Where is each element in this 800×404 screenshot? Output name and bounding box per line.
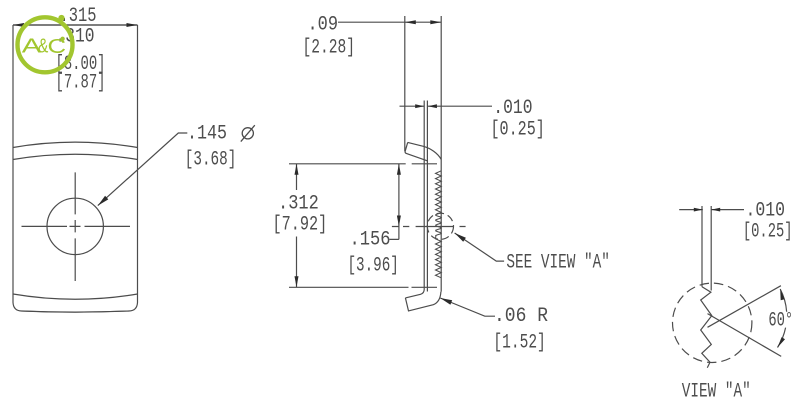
arrowheads .010 middle bbox=[415, 104, 424, 108]
bottom lanced tab bbox=[405, 292, 441, 311]
diameter symbol bbox=[242, 128, 253, 139]
hole circle bbox=[47, 198, 103, 254]
logo accent dot top bbox=[58, 15, 64, 21]
hole centerline horizontal bbox=[22, 225, 131, 227]
svg-text:[0.25]: [0.25] bbox=[743, 221, 793, 244]
view A sheet lines bbox=[702, 206, 711, 291]
dim .312 dimension line bbox=[296, 164, 298, 287]
view A serration teeth bbox=[701, 287, 712, 368]
svg-text:SEE VIEW "A": SEE VIEW "A" bbox=[506, 252, 610, 275]
svg-text:.010: .010 bbox=[746, 200, 786, 223]
dim .09 dimension line bbox=[338, 21, 441, 23]
hole centerline vertical bbox=[74, 172, 76, 281]
arrowheads .312 bbox=[295, 164, 299, 175]
left view bottom bend line bbox=[13, 294, 138, 299]
centerline through detail region bbox=[392, 226, 466, 228]
svg-text:[7.87]: [7.87] bbox=[56, 72, 106, 95]
arrowhead .06R leader bbox=[440, 298, 452, 305]
svg-text:.312: .312 bbox=[278, 193, 319, 216]
svg-text:.06 R: .06 R bbox=[494, 305, 548, 328]
dim .010 view A dimension line bbox=[679, 209, 744, 211]
top lanced tab bbox=[405, 142, 441, 160]
logo ring bbox=[18, 17, 73, 72]
svg-text:[1.52]: [1.52] bbox=[493, 332, 545, 355]
leader line for hole diameter bbox=[98, 133, 188, 206]
svg-text:.010: .010 bbox=[493, 97, 532, 120]
svg-text:C: C bbox=[48, 36, 67, 58]
svg-text:[3.68]: [3.68] bbox=[185, 149, 237, 172]
60 degree angle line lower bbox=[708, 314, 782, 357]
logo accent dot inner bbox=[60, 37, 64, 41]
arrowheads .156 bbox=[397, 164, 401, 175]
dim .312 bottom extension line bbox=[289, 286, 437, 288]
svg-text:VIEW "A": VIEW "A" bbox=[682, 380, 751, 403]
svg-text:.09: .09 bbox=[308, 14, 339, 37]
serration teeth middle view bbox=[436, 171, 442, 278]
dim .156 dimension line bbox=[390, 164, 399, 240]
svg-text:[2.28]: [2.28] bbox=[303, 37, 356, 60]
svg-text:.145: .145 bbox=[187, 122, 227, 145]
svg-text:.156: .156 bbox=[350, 229, 391, 252]
left view top bend line 1 bbox=[13, 142, 138, 147]
svg-text:[0.25]: [0.25] bbox=[491, 118, 545, 141]
left view outline bbox=[13, 25, 138, 312]
arrowheads .09 bbox=[405, 20, 416, 24]
svg-text:60°: 60° bbox=[768, 309, 793, 332]
detail circle (dashed) bbox=[427, 213, 453, 239]
svg-text:[7.92]: [7.92] bbox=[273, 214, 328, 237]
middle view sheet thickness lines bbox=[405, 101, 427, 298]
arrowhead see view A leader bbox=[455, 233, 466, 242]
arrowhead hole leader bbox=[98, 196, 109, 206]
middle view: .09 extension line left bbox=[404, 16, 406, 151]
dim .315 width dimension line bbox=[13, 24, 138, 26]
60 degree angle line upper bbox=[708, 286, 781, 328]
middle view: right face line (extension + serration face) bbox=[440, 16, 442, 292]
dim .312/.156 top extension line bbox=[289, 163, 437, 165]
arrowheads .010 view A bbox=[694, 208, 703, 212]
dim .010 middle dimension line bbox=[400, 105, 493, 107]
arrowheads .315 bbox=[13, 23, 24, 27]
leader .06 R bbox=[440, 298, 495, 316]
arrowheads 60 degree arc bbox=[780, 289, 784, 300]
60 degree dimension arc bbox=[778, 289, 787, 348]
svg-text:[3.96]: [3.96] bbox=[348, 255, 399, 278]
leader SEE VIEW A bbox=[455, 233, 505, 261]
left view bottom edge sag bbox=[22, 311, 130, 312]
left view top bend line 2 bbox=[13, 154, 138, 159]
view A detail circle (dashed) bbox=[673, 283, 752, 362]
